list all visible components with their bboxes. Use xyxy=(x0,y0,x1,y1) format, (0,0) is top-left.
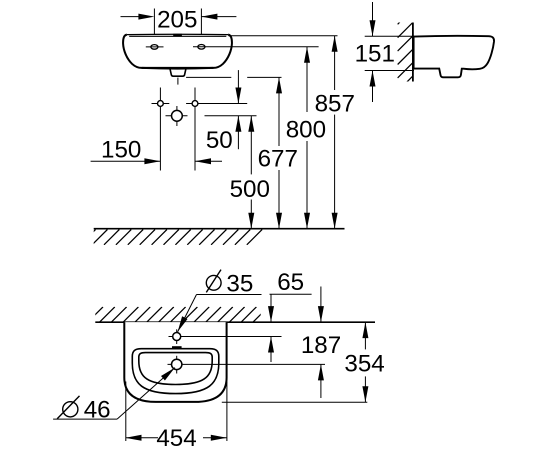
svg-text:187: 187 xyxy=(301,332,341,359)
svg-text:35: 35 xyxy=(226,270,253,297)
svg-text:454: 454 xyxy=(156,425,196,450)
svg-text:50: 50 xyxy=(206,127,233,154)
svg-text:354: 354 xyxy=(344,351,384,378)
svg-text:677: 677 xyxy=(258,145,298,172)
svg-text:65: 65 xyxy=(277,269,304,296)
svg-text:857: 857 xyxy=(315,90,355,117)
svg-text:150: 150 xyxy=(101,136,141,163)
svg-text:151: 151 xyxy=(355,41,395,68)
svg-text:800: 800 xyxy=(286,117,326,144)
svg-text:500: 500 xyxy=(230,176,270,203)
svg-text:205: 205 xyxy=(157,6,197,33)
